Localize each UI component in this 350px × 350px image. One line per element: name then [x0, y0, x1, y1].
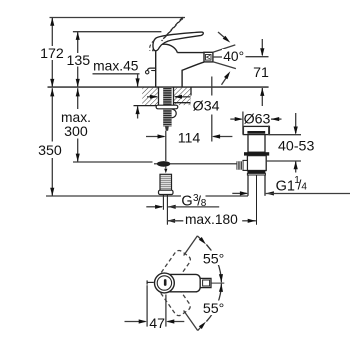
svg-text:max.: max.	[61, 110, 91, 125]
svg-text:135: 135	[66, 53, 90, 69]
svg-text:172: 172	[40, 46, 64, 62]
svg-text:40-53: 40-53	[278, 139, 314, 155]
svg-text:Ø34: Ø34	[193, 98, 220, 114]
svg-text:max.45: max.45	[93, 59, 139, 74]
svg-text:114: 114	[178, 130, 201, 146]
svg-text:G: G	[181, 194, 192, 210]
svg-text:350: 350	[38, 143, 62, 159]
svg-text:8: 8	[201, 198, 207, 209]
svg-text:47: 47	[149, 316, 165, 332]
svg-text:max.180: max.180	[185, 212, 238, 227]
svg-text:G1: G1	[276, 178, 295, 194]
svg-text:55°: 55°	[203, 251, 224, 267]
svg-text:4: 4	[301, 182, 307, 193]
svg-text:55°: 55°	[203, 301, 224, 317]
svg-text:300: 300	[64, 124, 88, 140]
svg-text:Ø63: Ø63	[244, 111, 271, 127]
svg-text:40°: 40°	[223, 49, 244, 64]
svg-text:71: 71	[253, 65, 269, 81]
